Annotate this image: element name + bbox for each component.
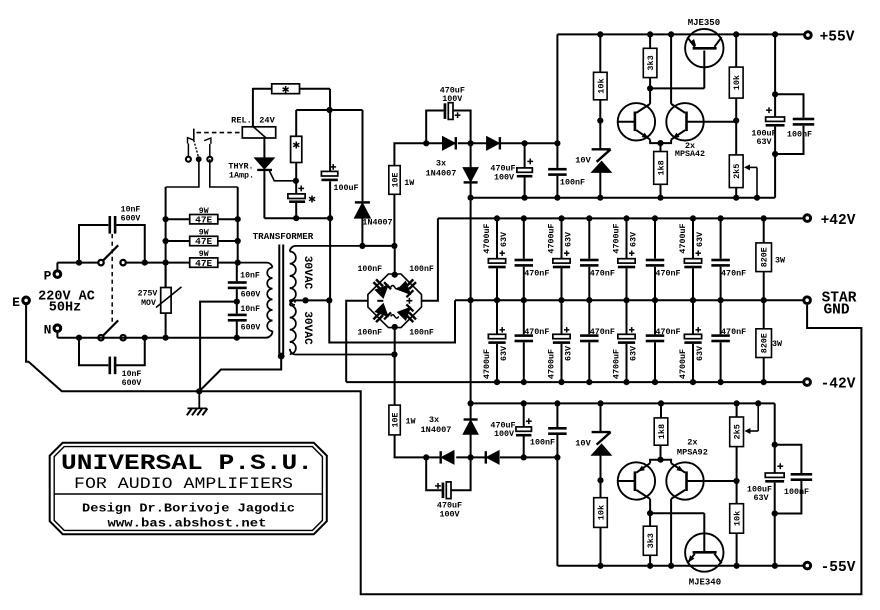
svg-text:-42V: -42V [821,377,856,393]
svg-text:2k5: 2k5 [732,164,742,179]
junction zener node top [597,118,603,124]
diode 1N4007 #1 [443,137,455,149]
svg-text:63V: 63V [499,345,509,361]
junction N-bypass right [142,335,148,341]
junction output caps bottom [772,442,778,448]
svg-text:47E: 47E [195,236,212,247]
svg-text:10k: 10k [733,511,743,526]
resistor 47E 9W #3 [190,258,218,267]
resistor 47E 9W #2 [166,240,190,242]
junction gate node [293,178,299,184]
junction zener node bottom [597,477,603,483]
resistor 1k8 bottom [658,400,664,406]
capacitor 100nF bridge upper-left [373,282,380,289]
svg-text:4700uF: 4700uF [611,349,621,379]
svg-text:30VAC: 30VAC [301,311,313,345]
capacitor 10nF 600V primary #2 [228,314,247,317]
svg-text:-55V: -55V [821,560,856,576]
junction driver collector node bottom [647,510,653,516]
varistor 275V MOV [165,263,167,288]
svg-text:3k3: 3k3 [646,533,656,548]
svg-text:3k3: 3k3 [646,55,656,70]
capacitor 470nF bottom #4 [720,300,722,334]
capacitor 4700uF 63V bottom #4 [692,300,694,334]
svg-text:3W: 3W [775,256,786,266]
svg-text:100nF: 100nF [409,329,434,338]
svg-text:63V: 63V [753,493,769,503]
svg-text:100V: 100V [439,510,460,520]
svg-text:10E: 10E [391,412,401,427]
capacitor 470uF 100V bypass bottom [442,483,445,499]
svg-text:63V: 63V [629,231,639,247]
transistor Q3 MPSA92 left [618,462,655,499]
svg-text:MJE350: MJE350 [688,18,720,28]
junction feedback node top [733,118,739,124]
wire rectifier dc+ feed [422,218,438,300]
svg-text:1N4007: 1N4007 [362,218,392,228]
wire 470uF bypass top [426,111,443,144]
svg-text:4700uF: 4700uF [546,223,556,253]
svg-text:4700uF: 4700uF [611,223,621,253]
wire regulator lower rail top [471,197,775,199]
diode 1N4007 #5 [487,451,499,463]
svg-text:24V: 24V [259,115,275,125]
capacitor 470uF 100V bypass top [444,103,447,119]
capacitor 10nF 600V N-bypass [79,338,108,366]
svg-text:MJE340: MJE340 [689,578,721,588]
wire center tap [294,300,296,302]
svg-text:63V: 63V [499,231,509,247]
capacitor 10nF 600V primary #1 [236,263,238,282]
junction caps bottom on N line [234,335,240,341]
junction relay-cap node [327,107,333,113]
transformer core [278,245,280,355]
svg-text:4700uF: 4700uF [678,223,688,253]
wire secondary top bus [362,245,394,247]
terminal -42V [804,379,811,386]
svg-text:3x: 3x [429,415,439,425]
capacitor 100nF bridge upper-right [406,279,413,286]
junction D3 top [468,140,474,146]
capacitor 470nF top #1 [521,215,527,221]
terminal STAR GND [804,297,811,304]
svg-text:275V: 275V [138,290,158,299]
capacitor 100nF input top [554,140,560,146]
svg-text:P: P [44,269,52,284]
svg-text:GND: GND [823,303,849,319]
svg-text:63V: 63V [564,231,574,247]
transformer shield ground wire [278,353,285,360]
svg-text:100nF: 100nF [409,265,434,274]
junction MOV bottom [163,335,169,341]
resistor 10k bottom-right [734,563,740,569]
wire contact to 47E-left [166,159,199,187]
svg-text:600V: 600V [241,291,261,300]
thyristor THYR 1Amp [263,138,265,158]
capacitor 100nF input bottom [554,400,560,406]
svg-text:✱: ✱ [293,139,301,153]
terminal +42V [804,215,811,222]
svg-text:TRANSFORMER: TRANSFORMER [253,231,314,242]
wire 470uF bypass bottom [426,457,441,490]
wire diode line [426,142,443,144]
wire regulator upper rail bottom [471,402,775,404]
svg-text:470nF: 470nF [721,268,746,278]
junction lower-rail left [468,195,474,201]
relay changeover contact [193,129,195,141]
resistor 10k top-right [733,31,739,37]
svg-text:100V: 100V [494,429,515,439]
capacitor 470nF bottom #2 [588,300,590,334]
svg-text:10E: 10E [391,172,401,187]
junction upper-rail bottom left [468,400,474,406]
bridge minus lead [346,301,368,382]
switch S1b lever [103,320,118,335]
wire +42V rail [438,217,803,219]
svg-text:UNIVERSAL P.S.U.: UNIVERSAL P.S.U. [61,450,313,476]
capacitor 470uF 100V smoothing top [522,140,528,146]
junction P-bypass right [142,260,148,266]
svg-text:+55V: +55V [820,30,855,46]
thyristor gate wire [269,171,296,181]
capacitor 470nF top #3 [652,215,658,221]
dashed relay-armature link [197,132,242,134]
switch S1a contacts [98,260,103,265]
resistor 10k top-left [597,31,603,37]
junction D6 bottom [468,454,474,460]
wire contact to 47E-right [210,159,238,187]
capacitor 4700uF 63V bottom #3 [626,300,628,334]
svg-text:47E: 47E [195,214,212,225]
transistor Q4 MPSA92 right [666,462,703,499]
svg-text:www.bas.abshost.net: www.bas.abshost.net [108,517,267,531]
svg-text:470nF: 470nF [590,268,615,278]
trimmer 2k5 top [735,121,737,155]
wire asterisk-node vertical [329,89,331,110]
junction ground node [196,388,202,394]
title divider [54,493,322,495]
wire 47E-bank right vertical [237,187,239,263]
svg-text:63V: 63V [695,345,705,361]
capacitor 4700uF 63V bottom #2 [561,300,563,334]
bridge diode D1 upper-left [376,286,388,298]
bridge diode D2 upper-right [398,282,410,294]
svg-text:63V: 63V [756,137,772,147]
terminal N [54,325,61,332]
capacitor 100uF 63V output bottom [777,465,783,467]
junction N-bypass left [76,335,82,341]
wire +55 output cap branch [772,31,778,37]
junction diode line bottom left [423,454,429,460]
svg-text:REL.: REL. [231,115,252,125]
svg-text:10k: 10k [732,75,742,90]
svg-text:4700uF: 4700uF [482,349,492,379]
svg-text:10V: 10V [575,438,591,448]
svg-text:2k5: 2k5 [733,424,743,439]
svg-text:1W: 1W [404,178,415,188]
svg-text:63V: 63V [629,345,639,361]
trimmer 2k5 bottom [736,447,738,481]
wire E to ground [26,305,199,392]
svg-text:820E: 820E [760,247,770,267]
terminal +55V [805,32,812,39]
junction emitter node bottom [657,457,663,463]
svg-text:100uF: 100uF [333,183,358,193]
wire thyristor cathode bus [264,217,330,219]
ground symbol [198,391,200,408]
junction diode line left [423,140,429,146]
transistor Q1 MPSA42 left [618,103,655,140]
diode 1N4007 #4 [442,451,454,463]
wire +55 rail [556,34,558,143]
svg-text:470nF: 470nF [655,327,680,337]
capacitor 470nF top #2 [586,215,592,221]
svg-text:✱: ✱ [308,192,316,206]
svg-text:1Amp.: 1Amp. [229,170,254,180]
svg-text:470nF: 470nF [655,268,680,278]
terminal -55V [804,562,811,569]
svg-text:10nF: 10nF [122,370,142,379]
bridge rectifier octagon [368,274,422,328]
resistor 3k3 top [647,31,653,37]
switch S1a lever [103,245,118,260]
transformer primary winding [267,268,272,279]
bridge polarity marks [391,286,399,289]
capacitor 100uF relay [329,110,331,171]
svg-text:1N4007: 1N4007 [426,169,457,179]
svg-text:470nF: 470nF [590,327,615,337]
capacitor 4700uF 63V top #1 [494,215,500,221]
diode 1N4007 #3 vertical [470,143,472,168]
diode 1N4007 relay [362,110,364,201]
svg-text:63V: 63V [564,345,574,361]
svg-text:E: E [12,295,20,310]
svg-text:100V: 100V [442,94,463,104]
svg-text:100nF: 100nF [530,437,555,447]
wire -55 output cap branch [774,403,776,473]
diode 1N4007 #2 [487,137,499,149]
zener diode 10V top [599,121,601,149]
bridge top lead [394,246,396,274]
svg-text:4700uF: 4700uF [678,349,688,379]
switch S1b contacts [98,335,103,340]
svg-text:1k8: 1k8 [657,160,667,175]
zener diode 10V bottom [600,403,602,431]
bridge diode D3 lower-left [376,304,388,316]
svg-text:9W: 9W [199,207,209,216]
junction caps mid [234,299,240,305]
svg-text:1k8: 1k8 [657,424,667,439]
svg-text:470nF: 470nF [524,327,549,337]
resistor 10E 1W top [393,194,395,246]
svg-text:10nF: 10nF [240,272,260,281]
svg-text:600V: 600V [241,324,261,333]
svg-text:63V: 63V [695,231,705,247]
wire -55 rail [556,457,558,565]
svg-text:1N4007: 1N4007 [421,425,452,435]
svg-text:820E: 820E [760,333,770,353]
capacitor 100uF 63V output top [766,109,772,111]
switch gang dashed link [111,234,113,323]
svg-text:Design Dr.Borivoje Jagodic: Design Dr.Borivoje Jagodic [82,502,295,516]
svg-text:600V: 600V [121,215,141,224]
svg-text:9W: 9W [199,250,209,259]
svg-text:4700uF: 4700uF [482,223,492,253]
capacitor 470uF 100V smoothing bottom [521,400,527,406]
capacitor * electrolytic [298,187,304,189]
capacitor 100nF bridge lower-left [373,312,380,319]
resistor 820E 3W top [761,215,767,221]
svg-text:10k: 10k [596,78,606,93]
capacitor 4700uF 63V top #2 [558,215,564,221]
capacitor 100nF bridge lower-right [406,315,413,322]
svg-text:4700uF: 4700uF [546,349,556,379]
svg-text:30VAC: 30VAC [301,256,313,290]
diode 1N4007 #6 vertical [470,403,472,420]
wire center-tap drop [329,218,331,300]
bridge bottom lead [394,328,396,355]
transistor Q2 MPSA42 right [666,103,703,140]
wire MJE350 base link [650,87,704,89]
svg-text:470nF: 470nF [721,327,746,337]
capacitor 470nF bottom #3 [654,300,656,334]
svg-text:100nF: 100nF [787,129,812,139]
resistor 3k3 bottom [647,563,653,569]
svg-text:10V: 10V [575,156,591,166]
svg-text:50Hz: 50Hz [49,301,81,316]
svg-text:100nF: 100nF [560,178,585,188]
resistor *1 (soft-start) [253,88,272,90]
svg-text:3x: 3x [436,159,446,169]
wire diode line bottom [426,456,441,458]
svg-text:100nF: 100nF [358,265,383,274]
junction driver collector node [647,85,653,91]
svg-text:MPSA92: MPSA92 [677,448,708,458]
svg-text:N: N [44,323,52,338]
bridge diode D4 lower-right [398,308,410,320]
svg-text:2x: 2x [687,438,697,448]
junction secondary bottom [391,351,397,357]
capacitor 4700uF 63V top #3 [623,215,629,221]
junction emitter node top [657,140,663,146]
wire -42V rail [346,381,802,383]
capacitor 470nF bottom #1 [523,300,525,334]
resistor 820E 3W bottom [763,300,765,329]
svg-text:470nF: 470nF [524,268,549,278]
capacitor 100nF output bottom [775,445,802,473]
svg-text:600V: 600V [122,379,142,388]
resistor 10k bottom-left [597,563,603,569]
svg-text:MOV: MOV [141,299,156,308]
capacitor 100nF output top [775,94,803,117]
transformer secondary winding 30VAC bottom [290,305,296,317]
svg-text:10k: 10k [597,505,607,520]
wire center-tap to star gnd [329,300,455,342]
capacitor 470nF top #4 [718,215,724,221]
capacitor 4700uF 63V top #4 [690,215,696,221]
wire P line [57,262,98,264]
wire ground to star-ground border [199,305,861,594]
terminal E [23,297,30,304]
wire MJE340 base link [650,512,704,514]
svg-text:+42V: +42V [821,213,856,229]
junction feedback node bottom [733,478,739,484]
svg-text:MPSA42: MPSA42 [675,149,705,159]
resistor *2 [295,110,297,136]
svg-text:✱: ✱ [282,83,290,97]
junction output caps top [772,91,778,97]
svg-text:3W: 3W [772,339,783,349]
svg-text:10nF: 10nF [240,305,260,314]
svg-text:1W: 1W [405,416,416,426]
capacitor 4700uF 63V bottom #1 [496,300,498,334]
svg-text:47E: 47E [195,258,212,269]
terminal P [54,271,61,278]
svg-text:FOR AUDIO AMPLIFIERS: FOR AUDIO AMPLIFIERS [74,475,293,493]
wire caps-mid to ground [200,302,237,392]
svg-text:100V: 100V [494,173,515,183]
svg-text:10nF: 10nF [121,206,141,215]
title block border [50,443,327,535]
transformer secondary winding 30VAC top [290,252,296,264]
svg-text:9W: 9W [199,229,209,238]
resistor 47E 9W #1 [166,218,190,220]
wire relay feed [252,88,254,127]
wire 47E-bank left vertical [165,187,167,287]
resistor 1k8 top [660,143,662,151]
svg-text:100nF: 100nF [358,329,383,338]
wire STAR GND rail [455,299,803,301]
wire N line [57,337,237,339]
resistor 10E 1W bottom [394,355,396,406]
capacitor 10nF 600V P-bypass [79,225,108,263]
junction long clamp vertical [470,198,472,404]
svg-text:100nF: 100nF [784,487,809,497]
junction P-bypass left [76,260,82,266]
